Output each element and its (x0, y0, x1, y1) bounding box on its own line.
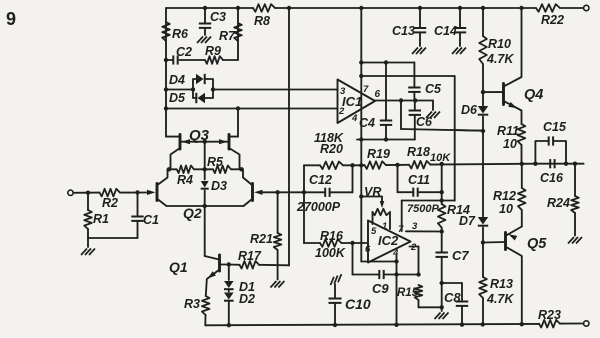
svg-text:R17: R17 (238, 249, 262, 263)
resistor R4 (177, 166, 194, 188)
capacitor C16 (540, 159, 564, 185)
svg-text:C1: C1 (143, 213, 159, 227)
svg-text:R13: R13 (490, 277, 513, 291)
svg-text:C9: C9 (372, 281, 389, 296)
svg-text:VR: VR (364, 185, 381, 199)
svg-text:R10: R10 (488, 37, 511, 51)
op-amp IC2 (365, 221, 418, 263)
capacitor C12 27000P (296, 165, 353, 214)
resistor R9 (205, 44, 223, 64)
capacitor C15 (535, 120, 567, 164)
ground stub right of C6 (426, 101, 440, 119)
svg-text:3: 3 (412, 221, 418, 232)
wire Q1 emitter down to R3 (206, 279, 207, 296)
svg-text:Q2: Q2 (183, 205, 202, 221)
transistor Q3 right half (229, 109, 240, 170)
Q1 emitter arrow (169, 259, 216, 279)
resistor R5 (207, 155, 231, 173)
svg-text:D6: D6 (461, 103, 478, 117)
svg-text:4: 4 (351, 113, 358, 124)
wire main mid row (361, 162, 583, 168)
diode D7 (459, 214, 488, 245)
svg-text:7: 7 (363, 84, 369, 95)
wire IC2 pin4 bottom line (361, 259, 398, 263)
Q2 left base arrow (147, 190, 156, 195)
svg-text:C7: C7 (452, 248, 469, 263)
svg-text:4.7K: 4.7K (486, 52, 514, 66)
svg-text:C8: C8 (444, 290, 461, 305)
wire IC1 output pin 6 (375, 98, 433, 102)
svg-text:R8: R8 (254, 14, 270, 28)
resistor R1 (84, 193, 109, 238)
svg-text:R11: R11 (497, 124, 519, 138)
resistor R24 (547, 164, 579, 236)
svg-text:10: 10 (503, 137, 517, 151)
capacitor C8 (442, 283, 469, 325)
ground below C14 (452, 48, 466, 55)
capacitor C4 (359, 63, 392, 140)
svg-text:R2: R2 (102, 196, 118, 210)
svg-text:7500P: 7500P (407, 203, 439, 215)
wire input line (73, 190, 147, 195)
svg-text:IC2: IC2 (378, 233, 399, 248)
resistor R21 (250, 192, 281, 279)
svg-text:R15: R15 (397, 287, 419, 299)
resistor R18 10K (407, 145, 451, 169)
svg-text:R7: R7 (219, 29, 236, 43)
op-amp IC1 (338, 80, 381, 125)
ground below C13 (412, 48, 426, 55)
transistor Q2 right half (243, 169, 253, 206)
wire pin7 box right side down (454, 76, 456, 201)
svg-text:C12: C12 (309, 173, 332, 187)
wire IC2 pin3 output line (406, 229, 444, 233)
svg-text:R16: R16 (320, 229, 344, 243)
resistor R11 10 (497, 111, 525, 164)
svg-text:C5: C5 (425, 82, 442, 96)
svg-text:C2: C2 (176, 45, 192, 59)
svg-text:C3: C3 (210, 10, 226, 24)
wire R4 R5 row (167, 167, 244, 171)
capacitor C14 (434, 8, 466, 46)
capacitor C13 (392, 8, 426, 46)
svg-text:9: 9 (6, 9, 16, 29)
diode D6 (461, 90, 488, 133)
wire IC2 input line (367, 242, 369, 244)
wire VR wiper line (361, 197, 382, 203)
Q3 emitter line with arrows (182, 127, 228, 144)
svg-text:6: 6 (365, 244, 371, 255)
capacitor C10 (328, 274, 371, 325)
ground below R24 (568, 237, 582, 244)
ground below R21 (270, 281, 284, 288)
wire Q3 emitters down through D3 (204, 142, 206, 206)
resistor R2 (100, 189, 121, 210)
wire IC1 pin7 upper branch (359, 60, 414, 64)
resistor R22 (536, 4, 564, 27)
terminal output bottom right (584, 321, 589, 326)
wire top supply rail (166, 7, 583, 9)
wire D6 to D7 (482, 131, 484, 217)
svg-text:5: 5 (371, 226, 377, 237)
svg-text:10: 10 (499, 202, 513, 216)
wire non-inverting input line to IC1 pin 3 (164, 58, 338, 92)
resistor R6 (162, 22, 189, 41)
svg-text:100K: 100K (315, 246, 346, 260)
transistor Q1 (208, 255, 229, 279)
Q4 emitter arrow (508, 87, 543, 108)
svg-text:C10: C10 (345, 296, 371, 312)
transistor Q2 left half (157, 169, 168, 206)
svg-text:R6: R6 (172, 27, 189, 41)
svg-text:Q5: Q5 (527, 236, 547, 252)
svg-text:D7: D7 (459, 214, 476, 228)
resistor R17 (227, 249, 289, 269)
resistor R16 100K (304, 229, 368, 260)
capacitor C1 (131, 193, 159, 239)
svg-text:R20: R20 (320, 142, 343, 156)
diode D1 (224, 265, 255, 295)
svg-text:27000P: 27000P (296, 200, 341, 214)
resistor R8 (253, 4, 275, 28)
diode D4 (169, 73, 213, 90)
svg-text:IC1: IC1 (342, 94, 362, 109)
capacitor C6 (409, 101, 433, 140)
VR wiper arrow (364, 185, 384, 208)
node rail junctions (203, 6, 524, 10)
terminal output top right (584, 5, 589, 10)
svg-text:R4: R4 (177, 173, 193, 187)
svg-text:2: 2 (410, 242, 417, 253)
svg-text:C11: C11 (408, 173, 430, 187)
ground below R1 (81, 249, 95, 256)
svg-text:4: 4 (392, 248, 399, 259)
Q5 collector arrow (509, 234, 548, 252)
svg-text:Q3: Q3 (189, 127, 210, 144)
resistor R7 (219, 8, 242, 60)
svg-text:R9: R9 (205, 44, 221, 58)
wire D6 junction to output step (455, 129, 483, 132)
capacitor C11 7500P (398, 165, 444, 215)
wire pin4 vertical to bottom rail (394, 256, 398, 325)
svg-text:R12: R12 (493, 189, 516, 203)
svg-text:1: 1 (382, 221, 387, 232)
resistor R20 with 118K label (304, 131, 361, 169)
resistor R3 (184, 296, 210, 325)
wire Q2 emitter line (167, 204, 244, 221)
svg-text:4.7K: 4.7K (486, 292, 514, 306)
svg-text:D2: D2 (239, 292, 255, 306)
svg-text:Q1: Q1 (169, 259, 188, 275)
capacitor C9 (353, 243, 419, 296)
svg-text:10K: 10K (430, 152, 451, 164)
resistor R14 (438, 164, 470, 232)
wire vertical from R8 node down to R17 (288, 8, 290, 266)
svg-text:R1: R1 (93, 212, 109, 226)
svg-text:C4: C4 (359, 116, 375, 130)
svg-text:D5: D5 (169, 91, 186, 105)
capacitor C5 (408, 63, 442, 101)
wire Q2 right base feedback line (262, 190, 306, 194)
capacitor C7 (436, 232, 470, 308)
svg-text:R3: R3 (184, 297, 200, 311)
potentiometer VR (373, 209, 391, 229)
wire IC1 pin4 return line (357, 137, 415, 141)
wire R1 C1 bottom join (88, 238, 138, 247)
wire inverting input line to IC1 pin 2 (164, 106, 338, 110)
wire bottom supply rail (205, 324, 583, 326)
svg-text:C15: C15 (543, 120, 567, 134)
svg-text:R19: R19 (367, 147, 390, 161)
wire IC1 power vertical through (359, 8, 363, 262)
ground below R15 join (435, 305, 449, 319)
resistor R15 (397, 285, 442, 307)
resistor R10 4.7K (479, 8, 514, 92)
transistor Q5 (483, 227, 522, 325)
svg-text:R24: R24 (547, 196, 570, 210)
wire IC2 pin7 stub and line (402, 198, 455, 231)
svg-text:Q4: Q4 (524, 87, 543, 103)
svg-text:R23: R23 (538, 308, 561, 322)
diode D5 (169, 90, 213, 106)
resistor R19 (365, 147, 390, 169)
wire feedback block left vertical (303, 165, 305, 243)
svg-text:C16: C16 (540, 171, 564, 185)
resistor R12 10 (493, 164, 526, 227)
svg-text:6: 6 (375, 89, 381, 100)
wire C2 R9 row (166, 59, 238, 61)
svg-text:D4: D4 (169, 73, 185, 87)
resistor R23 (538, 308, 561, 328)
wire IC2 pin2 line (410, 247, 421, 277)
svg-text:R21: R21 (250, 232, 273, 246)
diode D3 (201, 179, 227, 193)
wire output step down (401, 101, 483, 131)
capacitor C2 (173, 45, 192, 65)
svg-text:C13: C13 (392, 24, 415, 38)
diode D2 (224, 290, 255, 326)
wire Q2 emitter node down to Q1 (205, 206, 219, 260)
ground below C3 (197, 37, 211, 44)
node bottom rail junctions (227, 322, 524, 327)
resistor R13 4.7K (479, 243, 514, 325)
Q2 right base arrow (254, 190, 263, 195)
page number 9 (6, 9, 16, 29)
svg-text:R22: R22 (541, 13, 564, 27)
wire left vertical from rail (165, 8, 167, 137)
svg-text:D3: D3 (211, 179, 227, 193)
svg-text:C14: C14 (434, 24, 457, 38)
transistor Q3 left half (166, 135, 180, 170)
svg-text:R18: R18 (407, 145, 430, 159)
terminal input left (68, 190, 73, 195)
capacitor C3 (199, 8, 226, 35)
wire IC1 pin7 lower branch (359, 74, 455, 78)
svg-text:R5: R5 (207, 155, 224, 169)
transistor Q4 (483, 8, 522, 111)
